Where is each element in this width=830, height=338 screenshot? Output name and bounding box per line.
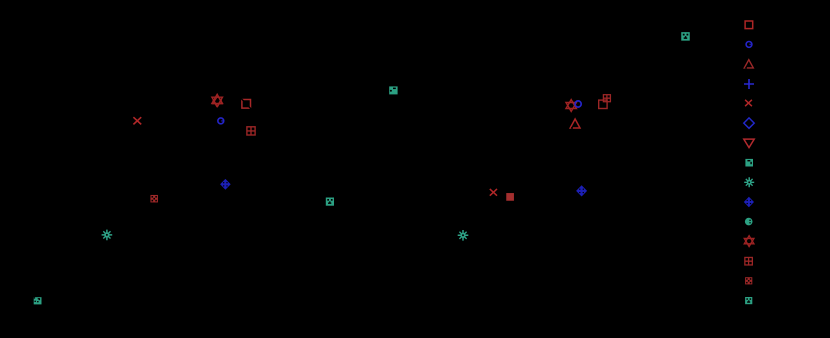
- scatter marker: blue diamond with four dots O: [576, 185, 587, 196]
- scatter marker: red x A: [133, 117, 141, 124]
- legend marker 5: red x: [745, 100, 752, 106]
- scatter marker: blue ring D: [218, 118, 224, 124]
- legend marker 4: blue plus: [744, 79, 754, 89]
- scatter marker: red hexagram B: [212, 94, 223, 107]
- legend marker 15: green face square: [745, 297, 752, 304]
- scatter marker: dark red open square S: [599, 100, 607, 108]
- legend marker 7: red open inverted triangle: [744, 139, 754, 148]
- scatter marker: dark red window grid E: [247, 127, 255, 135]
- scatter marker: dark red window grid T: [603, 95, 610, 102]
- scatter marker: red hexagram Q: [566, 100, 576, 112]
- scatter marker: red x M: [490, 189, 497, 196]
- scatter marker: green face square J: [326, 198, 334, 206]
- scatter marker: blue diamond with four dots F: [220, 179, 231, 190]
- scatter marker: green face square U: [681, 32, 690, 41]
- scatter marker: green sun asterisk L: [458, 230, 469, 241]
- legend marker 10: blue diamond with four dots: [744, 197, 754, 207]
- scatter marker: dark red checkered square G: [150, 195, 158, 203]
- scatter marker: red open triangle P: [570, 119, 580, 129]
- legend marker 9: green sun asterisk: [744, 177, 754, 187]
- scatter marker: red open square C: [241, 99, 251, 109]
- legend marker 11: green filled circle with dots: [745, 218, 753, 226]
- scatter marker: green sun asterisk H: [102, 230, 113, 241]
- scatter marker: green floppy square K: [389, 86, 397, 94]
- legend marker 3: dark red open triangle: [744, 60, 753, 69]
- scatter marker: dark red filled square N: [506, 193, 514, 201]
- legend marker 12: red hexagram: [744, 236, 754, 247]
- legend marker 6: blue open diamond: [744, 118, 754, 128]
- scatter marker: blue ring R: [575, 101, 581, 107]
- legend marker 8: green floppy square: [745, 159, 753, 167]
- scatter marker: green floppy square I: [34, 297, 42, 304]
- legend marker 14: dark red checkered square: [745, 277, 752, 284]
- legend marker 13: dark red window grid: [745, 257, 753, 265]
- legend marker 2: blue ring: [746, 42, 752, 48]
- legend marker 1: red open square: [745, 21, 753, 29]
